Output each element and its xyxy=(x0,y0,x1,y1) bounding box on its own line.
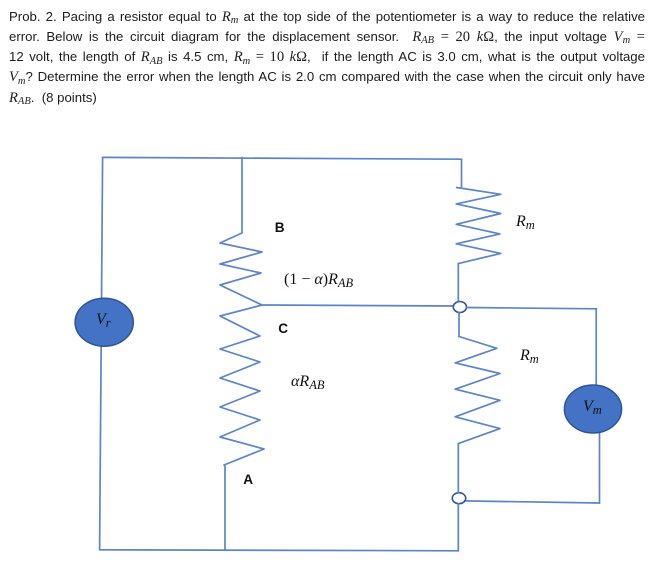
label C (wiper terminal) xyxy=(278,321,288,336)
label A (bottom terminal) xyxy=(243,472,253,487)
wire Rm2 bottom lead xyxy=(457,444,459,493)
value label (1-a)R_AB xyxy=(284,271,353,289)
value label aR_AB xyxy=(291,373,324,391)
wire node to right branch xyxy=(466,308,596,309)
label Vr inside source xyxy=(96,311,111,329)
voltmeter Vm ellipse xyxy=(564,385,621,433)
problem statement text xyxy=(9,7,645,108)
node junction circle upper xyxy=(453,302,466,313)
node junction circle lower xyxy=(452,493,465,504)
wire Vm bottom lead xyxy=(599,433,601,503)
wire lower node to bottom wire xyxy=(457,504,459,551)
wire node down lead into Rm2 xyxy=(458,312,460,336)
wire bottom-right horizontal to lower node xyxy=(464,501,599,503)
resistor Rm1 zigzag xyxy=(456,188,501,264)
label B (top terminal) xyxy=(275,220,285,235)
value label Rm2 xyxy=(520,347,539,365)
potentiometer R_AB zigzag xyxy=(220,233,264,465)
wire potentiometer top lead xyxy=(241,158,243,234)
label Vm inside meter xyxy=(583,398,602,416)
wire top horizontal xyxy=(103,157,462,159)
wire Rm1 bottom lead xyxy=(457,264,459,301)
value label Rm1 xyxy=(516,213,535,231)
resistor Rm2 zigzag xyxy=(455,337,500,444)
wire potentiometer bottom lead (terminal A) xyxy=(224,465,226,550)
wire right branch down to Vm xyxy=(595,309,597,385)
wire bottom horizontal xyxy=(100,550,459,551)
wire left vertical xyxy=(100,158,103,550)
wire top-right lead into Rm1 xyxy=(461,159,463,187)
wire wiper C to node xyxy=(262,305,455,306)
voltage source Vr ellipse xyxy=(75,298,133,346)
